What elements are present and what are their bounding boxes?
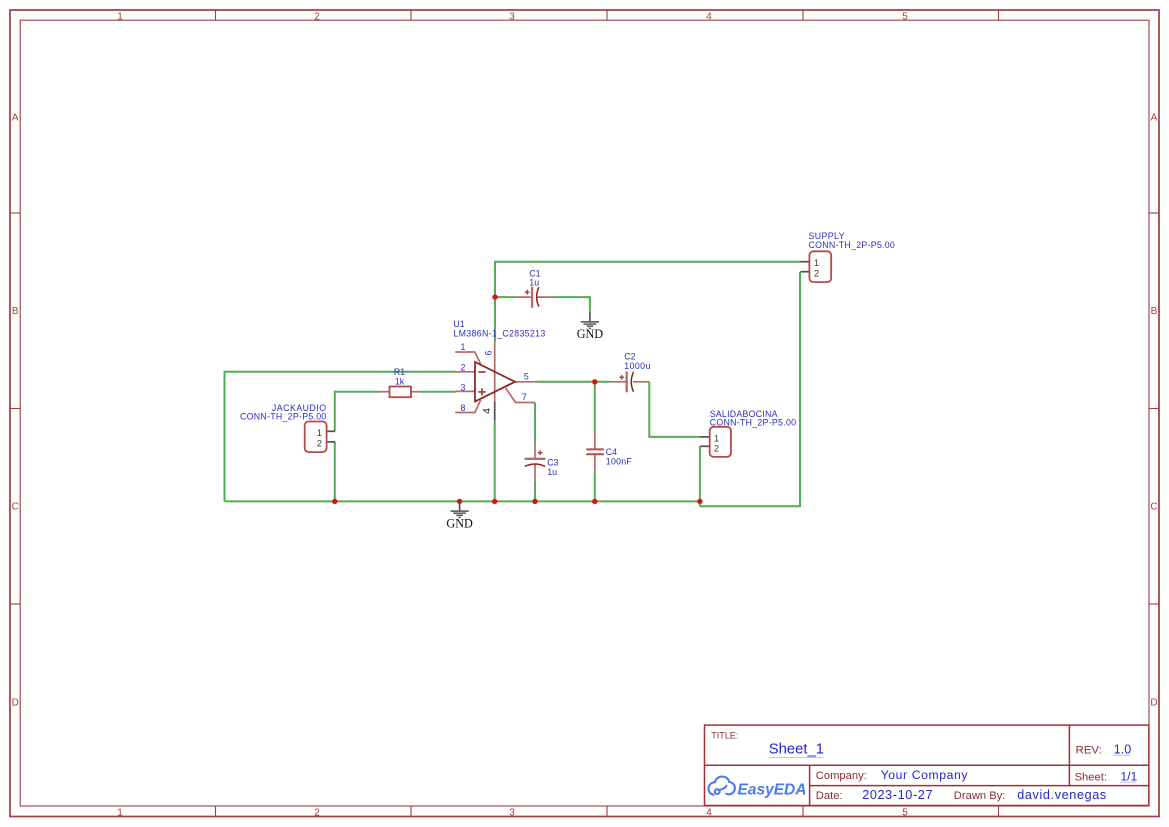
svg-text:C: C: [12, 502, 19, 513]
svg-text:CONN-TH_2P-P5.00: CONN-TH_2P-P5.00: [710, 418, 797, 428]
svg-text:8: 8: [461, 403, 466, 413]
svg-text:Drawn By:: Drawn By:: [954, 790, 1006, 802]
title block: [705, 725, 1149, 805]
svg-text:Sheet_1: Sheet_1: [769, 742, 824, 758]
pin 4 line: [494, 401, 496, 420]
svg-text:2: 2: [714, 444, 719, 455]
svg-text:A: A: [12, 112, 19, 123]
triangle body: [475, 362, 515, 402]
svg-text:1: 1: [317, 428, 322, 439]
svg-text:C: C: [1150, 502, 1157, 513]
wire: C1 left to junction and C1 right to GND: [495, 297, 590, 312]
resistor R1 1k: [380, 367, 420, 397]
svg-text:Date:: Date:: [816, 790, 843, 802]
wire: ground bottom bus: [225, 500, 700, 502]
svg-text:TITLE:: TITLE:: [711, 731, 738, 741]
pin 3 line: [456, 390, 475, 392]
svg-text:5: 5: [902, 807, 908, 818]
svg-text:2: 2: [461, 362, 466, 372]
svg-text:6: 6: [484, 350, 494, 355]
junction node C3 / ground bus: [532, 499, 537, 504]
wire: SALIDABOCINA pin2 down to ground bus junction: [699, 446, 701, 506]
svg-text:REV:: REV:: [1076, 744, 1102, 756]
svg-text:7: 7: [522, 392, 527, 402]
wire: supply top net from C1 junction to SUPPLY pin 1: [495, 262, 800, 342]
wire: opamp pin 7 down to C3 top: [534, 403, 536, 443]
svg-text:GND: GND: [577, 327, 604, 341]
wire: JACKAUDIO pin2 down to ground bus: [334, 442, 336, 502]
wire: C3 bottom to ground bus: [534, 481, 536, 502]
svg-text:5: 5: [524, 372, 529, 382]
svg-text:1k: 1k: [395, 377, 405, 387]
wire: opamp pin 2 net long loop left: [225, 372, 456, 502]
svg-text:1: 1: [117, 807, 123, 818]
pin 5 line: [515, 381, 535, 383]
svg-text:2: 2: [317, 438, 322, 449]
wire: junction to C2 left: [595, 381, 611, 383]
junction node opamp pin4 / ground bus: [492, 499, 497, 504]
minus sign: [478, 371, 485, 373]
svg-text:5: 5: [902, 11, 908, 22]
svg-text:1.0: 1.0: [1114, 742, 1132, 756]
wire: opamp pin 5 output to junction node: [535, 381, 595, 383]
connector JACKAUDIO CONN-TH_2P-P5.00: [240, 403, 335, 452]
svg-text:A: A: [1151, 112, 1158, 123]
svg-text:D: D: [1150, 698, 1157, 709]
svg-text:1000u: 1000u: [624, 361, 650, 371]
svg-text:3: 3: [461, 382, 466, 392]
capacitor C2 1000u polarized: [611, 352, 651, 393]
wire: ground bus to SUPPLY pin 2 tall right segment: [700, 272, 800, 507]
connector SUPPLY CONN-TH_2P-P5.00: [800, 231, 895, 282]
wire: junction down to C4 top: [594, 382, 596, 433]
svg-text:1: 1: [461, 342, 466, 352]
capacitor C3 1u polarized vertical: [525, 443, 559, 481]
svg-text:100nF: 100nF: [606, 456, 633, 466]
wire: opamp pin 4 down to ground bus: [494, 421, 496, 502]
svg-text:4: 4: [481, 408, 493, 414]
svg-text:GND: GND: [446, 517, 473, 531]
junction node jack pin2 / ground bus: [332, 499, 337, 504]
svg-text:Your Company: Your Company: [881, 768, 969, 782]
junction node salida pin2 / ground bus: [697, 499, 702, 504]
svg-text:Company:: Company:: [816, 770, 867, 782]
junction node at output net: [592, 379, 597, 384]
svg-text:2: 2: [814, 268, 819, 279]
capacitor C1 1u polarized: [516, 268, 554, 307]
capacitor C4 100nF: [586, 432, 632, 471]
svg-text:3: 3: [509, 807, 515, 818]
svg-text:LM386N-1_C2835213: LM386N-1_C2835213: [453, 328, 545, 338]
svg-text:4: 4: [706, 11, 712, 22]
svg-text:EasyEDA: EasyEDA: [738, 781, 807, 798]
svg-text:1u: 1u: [547, 467, 557, 477]
svg-text:Sheet:: Sheet:: [1075, 771, 1107, 783]
svg-text:4: 4: [706, 807, 712, 818]
pin 2 line: [456, 371, 475, 373]
svg-text:D: D: [12, 698, 19, 709]
svg-text:B: B: [1151, 306, 1158, 317]
pin 7 line: [506, 388, 535, 403]
junction node at C1 / supply net: [492, 294, 497, 299]
svg-text:3: 3: [509, 11, 515, 22]
svg-text:1: 1: [117, 11, 123, 22]
svg-text:2: 2: [314, 11, 320, 22]
wire: input net JACKAUDIO pin1 up to R1 and opamp pin 3: [335, 392, 456, 432]
junction node C4 / ground bus: [592, 499, 597, 504]
connector SALIDABOCINA CONN-TH_2P-P5.00: [700, 409, 796, 457]
pin 6 line: [494, 342, 496, 402]
svg-text:2023-10-27: 2023-10-27: [862, 788, 933, 802]
ground flag near C1: [577, 312, 604, 341]
svg-text:B: B: [12, 306, 19, 317]
wire: C4 bottom to ground bus: [594, 472, 596, 502]
pin 1 line: [455, 352, 481, 364]
op-amp U1 LM386N-1_C2835213: [453, 319, 545, 421]
svg-text:1u: 1u: [529, 278, 539, 288]
ground flag on bottom bus: [446, 501, 473, 530]
junction node ground flag / ground bus: [457, 499, 462, 504]
svg-text:CONN-TH_2P-P5.00: CONN-TH_2P-P5.00: [240, 412, 327, 422]
svg-text:david.venegas: david.venegas: [1017, 788, 1107, 802]
svg-text:2: 2: [314, 807, 320, 818]
pin 8 line: [455, 400, 481, 413]
svg-text:CONN-TH_2P-P5.00: CONN-TH_2P-P5.00: [809, 240, 896, 250]
wire: C2 right down and across to SALIDABOCINA pin 1: [649, 382, 700, 437]
svg-text:1/1: 1/1: [1120, 769, 1137, 783]
plus sign: [478, 388, 485, 395]
